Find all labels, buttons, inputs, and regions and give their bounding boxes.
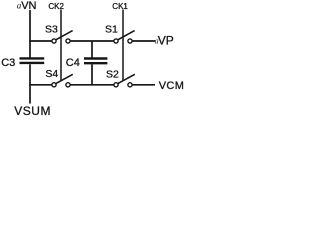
node aVN xyxy=(17,0,37,12)
capacitor C3 label xyxy=(1,57,15,69)
wire aVN vertical lead xyxy=(29,10,31,58)
capacitor C3 xyxy=(20,58,45,63)
switch S2 label xyxy=(106,69,119,81)
node VSUM xyxy=(14,104,51,118)
wire C3 bottom lead to VSUM xyxy=(29,64,31,103)
node aVP xyxy=(155,33,174,47)
svg-text:VCM: VCM xyxy=(159,80,185,92)
svg-text:C4: C4 xyxy=(66,57,80,69)
svg-text:S2: S2 xyxy=(106,69,119,81)
svg-text:S3: S3 xyxy=(45,24,58,36)
svg-text:VN: VN xyxy=(21,0,36,12)
wire top row: S1 to aVP xyxy=(132,40,155,42)
switch S4 xyxy=(52,74,73,87)
clock line CK1 xyxy=(122,10,124,81)
switch S3 label xyxy=(45,24,58,36)
svg-text:CK2: CK2 xyxy=(48,2,64,11)
wire bottom row: VSUM node to S4 xyxy=(29,84,52,86)
clock line CK2 xyxy=(60,10,62,81)
switch S2 xyxy=(114,74,135,87)
wire top row: aVN node to S3 xyxy=(29,40,52,42)
switch S3 xyxy=(52,31,73,44)
wire top row: S3 to S1 xyxy=(70,40,114,42)
svg-text:CK1: CK1 xyxy=(112,2,128,11)
clock CK1 label xyxy=(112,2,128,11)
svg-text:VSUM: VSUM xyxy=(14,104,51,118)
switch S1 xyxy=(114,31,135,44)
switch S1 label xyxy=(105,24,118,36)
node VCM xyxy=(159,80,185,92)
capacitor C4 label xyxy=(66,57,80,69)
wire bottom row: S2 to VCM xyxy=(132,84,155,86)
svg-text:S4: S4 xyxy=(45,68,58,80)
svg-text:S1: S1 xyxy=(105,24,118,36)
svg-text:C3: C3 xyxy=(1,57,15,69)
clock CK2 label xyxy=(48,2,64,11)
wire C4 bottom lead xyxy=(91,64,93,85)
wire C4 top lead xyxy=(91,41,93,58)
wire bottom row: S4 to S2 xyxy=(70,84,114,86)
svg-text:VP: VP xyxy=(158,33,174,47)
capacitor C4 xyxy=(84,59,107,64)
switch S4 label xyxy=(45,68,58,80)
